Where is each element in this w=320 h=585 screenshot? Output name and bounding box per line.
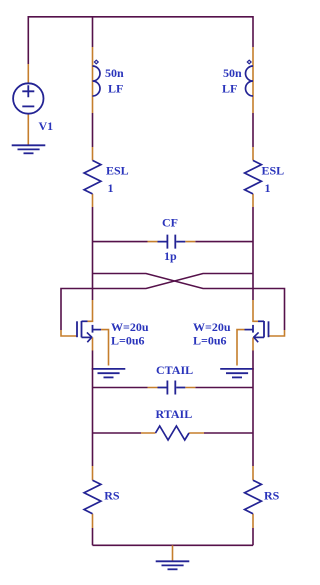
wire right rail top [252,16,254,47]
ground (below V1) [12,145,46,153]
wire bottom rail [93,544,254,546]
wire cross-couple: left drain to right gate [93,274,285,331]
svg-text:ESL: ESL [106,164,129,178]
wire V1 top [27,16,29,64]
wire right rail ESL to drain [252,207,254,300]
wire right rail RS to bottom [252,528,254,545]
transistor M1 (left NMOS) W=20u L=0u6 [61,300,149,366]
wire left rail between LF and ESL [92,113,94,147]
svg-text:W=20u: W=20u [111,320,149,334]
resistor ESL (right) 1 [245,147,285,207]
wire left rail RS to bottom [92,528,94,545]
wire left rail ESL to drain [92,207,94,300]
svg-text:RS: RS [104,489,120,503]
capacitor CTAIL [93,363,254,395]
wire right rail between LF and ESL [252,113,254,147]
resistor RS (right) [245,466,280,528]
wire left rail top [92,16,94,47]
svg-text:LF: LF [108,82,123,96]
capacitor CF 1p [93,216,254,264]
ground (left bulk) [92,369,126,378]
wire left rail source to bottom [92,351,94,467]
svg-text:RS: RS [264,489,280,503]
ground (bottom) [156,545,190,569]
svg-text:LF: LF [222,82,237,96]
resistor RTAIL [93,407,254,440]
svg-text:V1: V1 [39,119,54,133]
ground (right bulk) [220,369,254,378]
svg-text:1: 1 [108,181,114,195]
svg-text:L=0u6: L=0u6 [193,334,227,348]
svg-text:ESL: ESL [262,164,285,178]
inductor LF (right) 50n [222,47,253,113]
resistor RS (left) [84,466,120,528]
svg-text:CTAIL: CTAIL [156,363,193,377]
svg-text:L=0u6: L=0u6 [111,334,145,348]
svg-text:50n: 50n [223,66,242,80]
wire top rail VDD [28,16,253,18]
voltage source V1 [13,64,53,145]
inductor LF (left) 50n [93,47,125,113]
svg-text:RTAIL: RTAIL [156,407,193,421]
wire right rail source to bottom [252,351,254,467]
resistor ESL (left) 1 [84,147,129,207]
svg-text:W=20u: W=20u [193,320,231,334]
svg-text:50n: 50n [105,66,124,80]
svg-text:1p: 1p [164,249,177,263]
wire cross-couple: right drain to left gate [61,274,253,331]
transistor M2 (right NMOS) W=20u L=0u6 [193,300,285,366]
svg-text:1: 1 [265,181,271,195]
svg-text:CF: CF [162,216,178,230]
